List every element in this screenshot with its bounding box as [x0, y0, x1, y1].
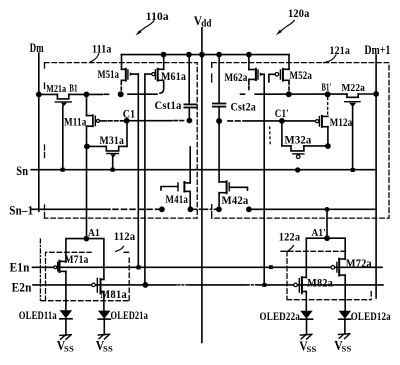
transistor M51a gate arrow: [130, 72, 134, 76]
transistor M61a drain lead to rail: [163, 55, 165, 70]
wire A1' left branch: [306, 238, 327, 277]
wire B1 row dash: [105, 93, 111, 95]
svg-text:Cst2a: Cst2a: [231, 100, 257, 114]
scan line Sn-1: [31, 208, 110, 210]
leader line 111a: [90, 54, 99, 63]
emission line E1n: [33, 266, 383, 268]
junction E1n node: [137, 265, 141, 269]
transistor M52a gate bubble: [275, 73, 279, 77]
svg-text:SS: SS: [342, 344, 352, 353]
transistor M32a gate bar: [293, 153, 304, 155]
svg-text:SS: SS: [307, 345, 317, 354]
transistor M72a top stub: [339, 258, 345, 260]
transistor M61a gate bubble: [152, 73, 155, 76]
emission line E2n: [33, 284, 176, 286]
svg-text:M31a: M31a: [100, 133, 125, 147]
svg-text:M81a: M81a: [100, 287, 127, 301]
wire M41a feed vertical: [189, 147, 191, 183]
wire C1' row dashes: [228, 120, 247, 122]
capacitor Cst1a top lead: [188, 55, 190, 105]
transistor M11a gate wire: [100, 120, 107, 122]
leader line 120a with arrowhead: [279, 21, 294, 33]
wire C1 row dashes: [174, 120, 185, 122]
wire node B1 vertical lower: [86, 126, 88, 238]
transistor M62a bottom stub: [249, 78, 256, 80]
transistor M51a source lead dashed: [120, 82, 122, 92]
transistor M62a channel bar: [255, 69, 257, 80]
transistor M61a bottom stub: [158, 79, 164, 81]
transistor M41a gate wire: [161, 187, 178, 191]
transistor M22a gate bar: [345, 101, 360, 103]
transistor M12a channel bar: [321, 116, 323, 127]
junction Dm+1-M22a: [374, 92, 378, 96]
capacitor Cst1a bottom plate: [184, 107, 196, 109]
svg-text:E2n: E2n: [12, 279, 32, 294]
Vdd label lead stub: [201, 27, 203, 29]
OLED22a cathode bar: [300, 318, 312, 320]
transistor M71a top stub: [60, 260, 66, 262]
emission line E2n right: [258, 284, 383, 286]
node B1 junction: [84, 92, 88, 96]
svg-text:M72a: M72a: [346, 256, 372, 270]
transistor M31a gate arrow: [110, 154, 116, 157]
transistor M31a source wire: [87, 145, 106, 147]
transistor M42a source lead to Sn-1: [218, 193, 220, 210]
junction Sn-M31a gate: [111, 168, 115, 172]
transistor M71a gate bubble: [54, 266, 57, 269]
transistor M52a top stub: [283, 68, 289, 70]
junction B1 wire-M31a: [85, 144, 89, 148]
transistor M72a source lead to OLED: [344, 275, 346, 311]
transistor M42a top stub: [219, 181, 227, 183]
OLED22a cathode wire: [306, 319, 308, 334]
transistor M32a channel dip: [291, 146, 304, 151]
svg-text:M82a: M82a: [307, 276, 333, 290]
transistor M72a gate bar: [336, 262, 338, 272]
transistor M82a channel bar: [301, 277, 303, 293]
transistor M31a channel dip: [106, 146, 118, 151]
transistor M81a gate bar: [96, 278, 98, 292]
transistor M21a source wire: [39, 93, 58, 95]
transistor M52a gate bar: [279, 70, 281, 79]
transistor M51a drain lead from rail: [121, 55, 123, 70]
node A1' junction: [325, 236, 329, 240]
transistor M41a bottom stub: [184, 190, 190, 192]
svg-text:M52a: M52a: [290, 68, 313, 82]
junction M12a-M32a: [326, 144, 330, 148]
junction E1n node right: [269, 265, 273, 269]
svg-text:SS: SS: [64, 344, 74, 353]
svg-text:B1: B1: [69, 83, 78, 95]
transistor M31a drain wire: [119, 145, 127, 147]
junction rail-M61a: [161, 53, 165, 57]
Vdd vertical supply line: [201, 28, 203, 343]
svg-text:M61a: M61a: [161, 69, 186, 83]
transistor M21a drain wire: [69, 93, 87, 95]
OLED11a cathode bar: [60, 318, 72, 320]
wire B1 row solid: [86, 93, 102, 95]
OLED11a anode triangle: [60, 310, 73, 318]
wire E1n feed vertical: [137, 74, 139, 266]
svg-text:C1′: C1′: [275, 106, 289, 120]
svg-text:C1: C1: [123, 107, 136, 121]
emission line E2n dashes 2: [248, 284, 259, 286]
OLED11a cathode wire: [65, 319, 67, 336]
svg-text:M11a: M11a: [64, 114, 87, 128]
wire E2n feed vertical: [144, 74, 146, 285]
transistor M32a gate bubble: [296, 155, 300, 159]
transistor M71a gate bar: [57, 262, 59, 270]
svg-text:122a: 122a: [279, 230, 301, 244]
svg-text:OLED22a: OLED22a: [260, 311, 301, 323]
transistor M72a bottom stub: [339, 274, 345, 276]
junction Dm-M21a: [37, 92, 41, 96]
transistor M11a gate bubble: [96, 119, 99, 122]
ground Vss symbol 4: [338, 334, 350, 339]
transistor M62a gate bar: [257, 70, 259, 79]
transistor M81a channel bar: [100, 279, 102, 293]
capacitor Cst2a top lead: [218, 55, 220, 104]
scan line Sn-1 dashed middle: [113, 208, 160, 210]
emission line E2n middle: [189, 284, 246, 286]
transistor M21a gate arrow: [61, 103, 67, 106]
transistor M61a gate wire: [145, 73, 152, 75]
dashed block 122a: [281, 251, 371, 299]
dash-dot boundary line left: [39, 239, 41, 300]
svg-text:Sn–1: Sn–1: [9, 202, 33, 217]
junction E2n node right: [263, 283, 267, 287]
capacitor Cst2a bottom lead through to M42a: [218, 107, 220, 182]
transistor M12a gate bar: [318, 117, 320, 126]
transistor M82a source lead to OLED: [305, 292, 307, 311]
transistor M42a gate bar: [228, 183, 230, 191]
transistor M81a gate bubble: [92, 283, 96, 287]
OLED21a anode triangle: [98, 311, 111, 319]
node A1 junction: [84, 237, 88, 241]
transistor M52a channel bar: [282, 69, 284, 81]
transistor M42a gate wire: [229, 187, 247, 190]
ground Vss symbol 3: [300, 334, 312, 339]
transistor M11a gate bar: [94, 116, 96, 125]
node C1 junction: [125, 119, 129, 123]
transistor M61a top stub: [158, 68, 164, 70]
transistor M41a gate bar: [177, 183, 179, 191]
transistor M52a gate riser: [268, 74, 270, 82]
svg-text:SS: SS: [103, 344, 113, 353]
junction Sn-1-M42a: [217, 207, 221, 211]
transistor M12a gate bubble: [315, 120, 318, 123]
dashed block 112a: [41, 252, 129, 300]
transistor M51a gate wire: [133, 73, 139, 75]
transistor M62a top stub: [249, 69, 256, 71]
junction M52a-B1' row: [287, 92, 291, 96]
svg-text:M12a: M12a: [330, 115, 353, 129]
leader line 121a: [324, 55, 337, 63]
junction C1 row-Cst1a: [187, 118, 191, 122]
wire B1 row dash 2: [153, 93, 157, 95]
wire A1' vertical from Sn-1: [326, 209, 328, 238]
svg-text:A1′: A1′: [312, 227, 327, 239]
emission line E2n dashes: [178, 284, 190, 286]
leader line 122a: [287, 246, 293, 252]
transistor M42a bottom stub: [219, 192, 227, 194]
transistor M82a bottom stub: [302, 291, 306, 293]
wire M62a gate to E2n vertical: [263, 74, 265, 285]
transistor M11a gate wire dashes to C1: [109, 120, 125, 122]
transistor M52a bottom stub: [283, 79, 289, 81]
transistor M32a drain wire: [304, 145, 328, 147]
transistor M12a bottom stub: [322, 126, 328, 128]
svg-text:M42a: M42a: [222, 193, 249, 207]
svg-text:OLED21a: OLED21a: [111, 310, 149, 322]
OLED21a cathode wire: [103, 319, 105, 335]
OLED12a cathode wire: [344, 319, 346, 334]
transistor M61a channel bar: [157, 69, 159, 81]
transistor M81a bottom stub: [101, 291, 104, 293]
dashed block 111a: [45, 63, 198, 219]
transistor M62a gate wire: [263, 73, 264, 75]
svg-text:M51a: M51a: [98, 67, 120, 81]
svg-text:M32a: M32a: [285, 133, 312, 147]
wire A1 right branch: [86, 239, 104, 280]
capacitor Cst1a top plate: [184, 103, 196, 105]
svg-text:Dm+1: Dm+1: [365, 43, 391, 57]
transistor M82a gate bar: [298, 279, 300, 293]
junction rail-Vdd: [200, 53, 204, 57]
transistor M51a channel bar: [125, 69, 127, 81]
junction Sn-M32a gate: [296, 168, 300, 172]
capacitor Cst2a bottom plate: [213, 106, 226, 108]
ground Vss symbol 2: [98, 334, 110, 339]
svg-text:OLED11a: OLED11a: [19, 310, 57, 322]
OLED21a cathode bar: [98, 318, 110, 320]
transistor M12a top stub: [322, 115, 328, 117]
transistor M81a source lead to OLED: [103, 292, 105, 311]
transistor M21a gate lead to Sn: [62, 106, 64, 170]
scan line Sn-1 dash-dot between boxes: [193, 208, 218, 210]
leader line 110a with arrowhead: [139, 21, 154, 33]
transistor M22a drain wire to Dm+1: [358, 93, 376, 95]
transistor M62a gate arrow: [260, 72, 264, 76]
svg-text:M62a: M62a: [225, 70, 248, 84]
svg-text:110a: 110a: [146, 9, 169, 23]
svg-text:Sn: Sn: [16, 163, 28, 178]
capacitor Cst2a top plate: [213, 103, 226, 105]
transistor M32a source wire: [282, 145, 291, 147]
transistor M62a source lead: [248, 79, 250, 84]
transistor M81a top stub: [101, 278, 104, 280]
svg-text:M41a: M41a: [166, 192, 189, 206]
junction Sn-M22a gate: [351, 168, 355, 172]
OLED12a cathode bar: [339, 318, 351, 320]
transistor M12a source lead down: [327, 127, 329, 147]
svg-text:M22a: M22a: [342, 82, 366, 94]
transistor M41a top stub: [184, 182, 190, 184]
OLED12a anode triangle: [339, 311, 352, 319]
transistor M22a channel dip: [347, 94, 358, 97]
svg-text:B1′: B1′: [322, 81, 332, 93]
transistor M71a channel bar: [59, 261, 61, 272]
wire B1' row solid: [255, 93, 347, 95]
transistor M82a top stub: [302, 276, 306, 278]
wire B1' dotted vertical: [327, 98, 329, 116]
node C1' junction: [280, 119, 284, 123]
transistor M51a bottom stub: [122, 79, 126, 81]
transistor M61a gate bar: [154, 70, 156, 79]
Vdd horizontal rail: [121, 54, 289, 56]
svg-text:Cst1a: Cst1a: [155, 98, 182, 112]
transistor M42a channel bar: [226, 181, 228, 193]
svg-text:Dm: Dm: [30, 40, 44, 55]
wire B1 row middle solid: [128, 93, 152, 95]
transistor M71a source lead to OLED: [65, 271, 67, 310]
junction Sn-1 node b: [247, 207, 251, 211]
junction Sn-1-M41a: [188, 207, 192, 211]
transistor M71a bottom stub: [60, 270, 66, 272]
svg-text:120a: 120a: [288, 6, 310, 20]
transistor M51a top stub: [122, 68, 126, 70]
data line Dm: [38, 53, 40, 211]
leader line 112a: [116, 247, 124, 252]
svg-text:OLED12a: OLED12a: [351, 311, 391, 323]
svg-text:E1n: E1n: [10, 259, 30, 274]
wire node B1 vertical upper: [86, 94, 88, 115]
transistor M52a drain lead to rail: [288, 55, 290, 70]
transistor M11a body: [87, 115, 93, 126]
transistor M61a source lead hook: [160, 80, 164, 93]
junction Sn-1-A1': [325, 208, 328, 211]
wire C1' row solid: [248, 120, 316, 122]
transistor M51a gate bar: [127, 70, 129, 79]
junction Cst2a-C1' row: [217, 119, 221, 123]
transistor M22a gate arrow: [349, 103, 356, 107]
svg-text:121a: 121a: [330, 43, 351, 57]
transistor M41a source lead to Sn-1: [189, 191, 191, 209]
ground Vss symbol 1: [60, 335, 72, 340]
transistor M21a gate bar: [55, 101, 71, 103]
svg-text:112a: 112a: [114, 229, 136, 243]
svg-text:dd: dd: [201, 18, 212, 30]
junction Sn-1 node a: [160, 207, 164, 211]
transistor M31a gate lead to Sn: [112, 157, 114, 170]
junction rail-Cst2a: [217, 53, 221, 57]
OLED22a anode triangle: [300, 311, 313, 319]
transistor M62a drain lead from rail: [248, 55, 250, 70]
svg-text:111a: 111a: [92, 41, 112, 55]
wire C1 row solid: [129, 120, 172, 122]
svg-text:A1: A1: [88, 227, 100, 239]
wire A1' right branch: [327, 238, 345, 259]
capacitor Cst1a bottom lead: [188, 108, 190, 120]
scan line Sn-1 right solid: [249, 208, 376, 210]
junction rail-Cst1a: [187, 53, 191, 57]
transistor M31a gate bar: [107, 153, 119, 155]
junction Sn-M21a gate: [61, 168, 65, 172]
scan line Sn: [31, 169, 376, 171]
transistor M21a channel dip: [57, 94, 68, 99]
transistor M52a gate dotted continuation: [269, 127, 272, 146]
transistor M72a gate bubble: [331, 266, 335, 270]
transistor M22a gate lead to Sn: [352, 107, 354, 170]
dashed block 121a: [212, 63, 389, 219]
svg-text:M21a: M21a: [46, 83, 66, 95]
junction B1' node: [325, 92, 329, 96]
junction rail-M62a: [247, 53, 251, 57]
junction M51a-B1 row: [119, 92, 123, 96]
svg-text:M71a: M71a: [65, 254, 89, 266]
wire C1' to M32a vertical: [281, 121, 283, 146]
transistor M41a channel bar: [183, 182, 185, 192]
transistor M52a source lead dashed: [288, 82, 290, 92]
transistor M82a gate bubble: [294, 283, 298, 287]
junction E2n node: [143, 283, 147, 287]
wire A1 left branch: [66, 239, 87, 262]
data line Dm+1: [375, 55, 377, 298]
wire C1 to M31a: [126, 121, 128, 146]
transistor M52a gate wire: [269, 73, 275, 75]
wire B1' row left dash: [241, 93, 246, 95]
transistor M72a channel bar: [338, 259, 340, 276]
transistor M62a source lead dash: [248, 87, 250, 91]
